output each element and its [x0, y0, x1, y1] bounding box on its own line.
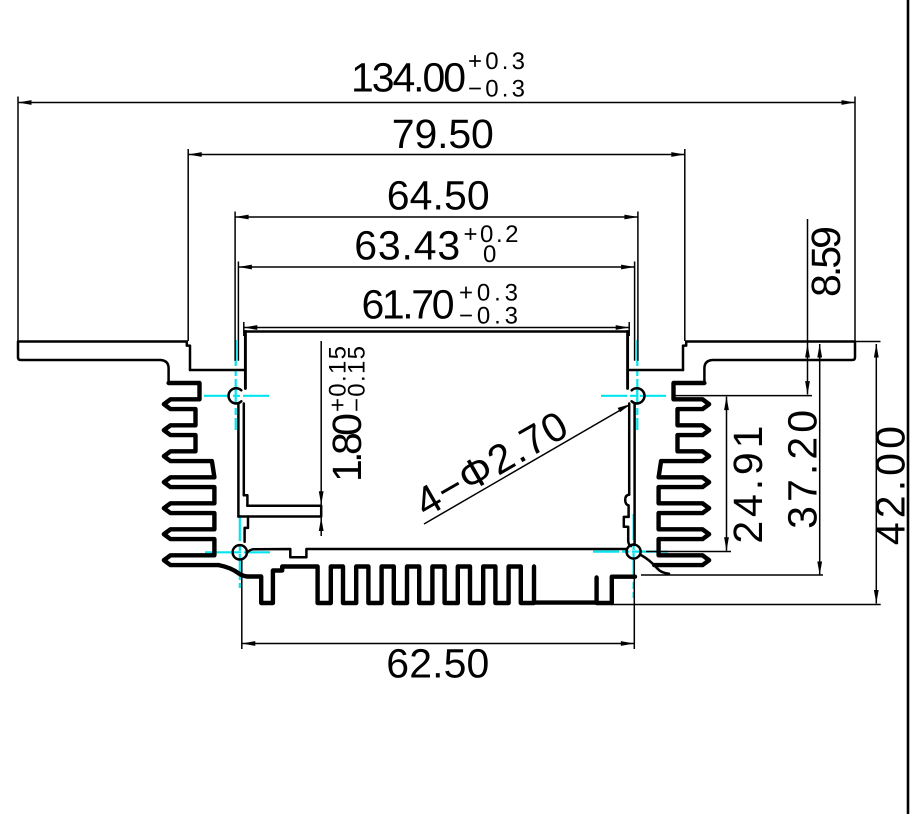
dimension text 1.80 +0.15/-0.15 (rotated): [324, 346, 371, 482]
svg-text:37.20: 37.20: [779, 410, 825, 529]
arrowheads dim 63.43: [238, 265, 252, 270]
arrowheads dim 37.20: [817, 344, 822, 358]
left wall foot step: [244, 495, 248, 506]
dimension text 63.43 +0.2/0: [354, 221, 518, 269]
arrowheads dim 24.91: [724, 397, 729, 411]
svg-text:+0.3: +0.3: [468, 48, 525, 75]
bottom comb fins: [219, 565, 635, 603]
arrowheads dim 79.50: [188, 152, 202, 157]
arrowhead leader 4-phi2.70: [618, 404, 631, 412]
svg-text:62.50: 62.50: [386, 641, 489, 687]
arrowheads dim 42.00: [874, 344, 879, 358]
dim 62.50 line + extensions: [242, 560, 635, 649]
reference line bottom-right hole center: [646, 551, 731, 553]
dim 134.00 line + extensions: [18, 97, 855, 342]
reference line top right corner: [855, 341, 881, 343]
dimension text 134.00 +0.3/-0.3: [351, 48, 525, 103]
left shelf under flange: [190, 369, 245, 372]
svg-text:42.00: 42.00: [868, 426, 912, 545]
border frame right edge: [907, 0, 910, 814]
screw hole bottom-right: [627, 545, 641, 559]
svg-text:61.70: 61.70: [362, 282, 455, 328]
dim 1.80 line segments: [320, 341, 322, 536]
screw hole top-right (C open left): [632, 388, 645, 403]
right fin stack: [654, 383, 709, 565]
svg-text:−0.15: −0.15: [344, 346, 371, 412]
crosshair top-right hole: [601, 340, 669, 430]
left step below ledge: [245, 517, 248, 542]
svg-text:−0.3: −0.3: [459, 303, 518, 330]
svg-text:0: 0: [483, 241, 496, 268]
svg-text:134.00: 134.00: [351, 55, 466, 101]
right channel wall below hole: [629, 403, 634, 544]
arrowheads dim 8.59: [805, 344, 810, 358]
base plate top surface with notch: [247, 549, 627, 557]
arrowheads dim 1.80: [319, 491, 324, 505]
left channel wall below hole: [238, 403, 243, 516]
dim 8.59 line: [807, 219, 809, 395]
reference line 37.20 bottom: [641, 574, 823, 576]
reference line 42.00 bottom: [611, 604, 881, 606]
dimension text 61.70 +0.3/-0.3: [362, 280, 519, 330]
right shelf under flange: [628, 369, 683, 372]
right wing flange outline: [683, 342, 855, 384]
arrowheads dim 61.70: [244, 325, 257, 330]
svg-text:63.43: 63.43: [354, 223, 460, 269]
dim 42.00 line: [875, 344, 877, 604]
screw hole bottom-left: [233, 545, 247, 559]
dim 63.43 line + extensions: [238, 262, 634, 361]
arrowheads dim 64.50: [235, 215, 249, 220]
dim 24.91 line: [726, 397, 728, 551]
dim 61.70 line + extensions: [244, 322, 629, 336]
right wall hook: [624, 517, 631, 546]
svg-text:1.80: 1.80: [324, 413, 370, 482]
reference line top holes center: [675, 395, 812, 397]
arrowheads dim 134.00: [18, 100, 32, 105]
dim 79.50 line + extensions: [188, 149, 685, 341]
left lip wall: [244, 332, 247, 389]
svg-text:8.59: 8.59: [803, 226, 849, 297]
right wall bulge notch: [625, 495, 629, 517]
inner ledge 1.80 step: [238, 506, 321, 517]
dim 64.50 line + extensions: [235, 212, 638, 361]
left fin stack: [164, 383, 219, 565]
svg-text:79.50: 79.50: [392, 111, 494, 157]
cyan centerline crosshairs: [204, 340, 670, 598]
crosshair bottom-right hole: [593, 514, 670, 598]
crosshair top-left hole: [204, 340, 272, 430]
leader line 4-phi2.70: [424, 405, 630, 524]
svg-text:64.50: 64.50: [387, 173, 490, 219]
left wing flange outline: [18, 342, 190, 384]
dim 37.20 line: [819, 344, 821, 575]
fillet bottom-right boss to base bottom: [640, 555, 669, 574]
right lip wall: [626, 332, 629, 389]
svg-text:24.91: 24.91: [725, 426, 771, 544]
channel mesa top surface: [245, 330, 627, 333]
screw hole top-left (C open right): [229, 388, 242, 403]
svg-text:−0.3: −0.3: [468, 76, 525, 103]
crosshair bottom-left hole: [205, 515, 273, 588]
arrowheads dim 62.50: [242, 641, 256, 646]
